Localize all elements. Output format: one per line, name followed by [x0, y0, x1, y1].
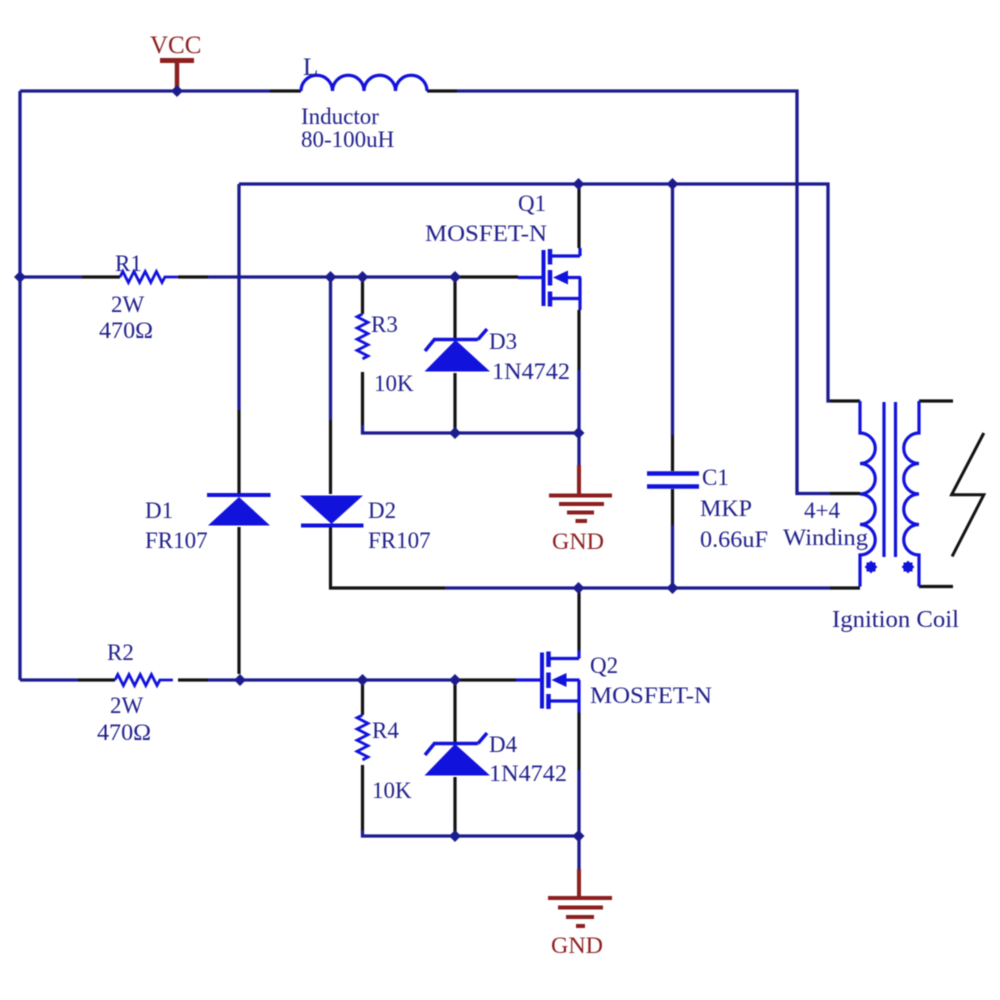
svg-text:Inductor: Inductor [301, 104, 379, 129]
svg-text:10K: 10K [374, 371, 414, 396]
svg-text:80-100uH: 80-100uH [301, 127, 394, 152]
svg-text:GND: GND [551, 933, 603, 958]
svg-text:FR107: FR107 [368, 528, 431, 553]
svg-text:1N4742: 1N4742 [489, 761, 567, 786]
svg-text:C1: C1 [702, 465, 729, 490]
svg-text:MOSFET-N: MOSFET-N [590, 683, 712, 708]
svg-text:MOSFET-N: MOSFET-N [425, 221, 547, 246]
svg-text:GND: GND [552, 529, 604, 554]
svg-text:D2: D2 [368, 498, 396, 523]
svg-text:4+4: 4+4 [804, 498, 840, 523]
svg-text:D3: D3 [489, 329, 517, 354]
svg-text:MKP: MKP [700, 496, 752, 521]
svg-text:D1: D1 [145, 498, 173, 523]
svg-text:10K: 10K [372, 778, 412, 803]
svg-text:R2: R2 [107, 640, 134, 665]
svg-text:Q2: Q2 [590, 653, 618, 678]
svg-text:Q1: Q1 [518, 191, 546, 216]
svg-text:R4: R4 [372, 718, 399, 743]
svg-text:R1: R1 [115, 251, 142, 276]
svg-text:L: L [303, 54, 318, 81]
svg-text:D4: D4 [489, 732, 518, 757]
svg-text:2W: 2W [111, 292, 145, 317]
svg-text:FR107: FR107 [145, 528, 208, 553]
svg-text:470Ω: 470Ω [99, 318, 153, 343]
svg-text:Winding: Winding [783, 525, 869, 550]
svg-text:470Ω: 470Ω [97, 720, 151, 745]
svg-text:R3: R3 [371, 312, 398, 337]
svg-text:0.66uF: 0.66uF [700, 527, 768, 552]
svg-text:2W: 2W [110, 693, 144, 718]
svg-text:Ignition Coil: Ignition Coil [832, 607, 959, 633]
svg-text:VCC: VCC [150, 32, 201, 59]
svg-text:1N4742: 1N4742 [492, 359, 570, 384]
